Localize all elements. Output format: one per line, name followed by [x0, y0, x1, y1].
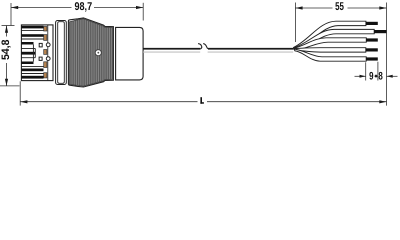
cable (single jacket line) segment 2: [208, 48, 293, 50]
wire 5 (bottom) insulation: [294, 49, 366, 61]
connector front terminal bar 2: [21, 34, 43, 37]
test port circle upper: [46, 43, 50, 47]
svg-text:98,7: 98,7: [75, 1, 93, 13]
dimension 8 outside arrow and shaft: [387, 75, 398, 78]
wire 2 insulation: [294, 29, 374, 49]
connector front rib line 3: [21, 48, 35, 50]
dimension 9 extension line left: [365, 62, 367, 80]
latch lever inner column: [58, 22, 65, 84]
clamp spring 5 (orange): [44, 73, 47, 78]
latch window square upper: [39, 43, 42, 47]
connector front terminal bar 7: [21, 76, 43, 79]
shared right extension line (55 / 8 / L): [386, 3, 388, 106]
latch lever outer column: [56, 21, 67, 85]
wire 4 insulation: [294, 48, 366, 52]
dimension L line and arrows: [20, 100, 386, 103]
dimension 54,8 extension line top: [2, 25, 15, 27]
svg-text:54,8: 54,8: [0, 40, 12, 61]
rear housing block: [116, 27, 144, 80]
boot pin circle center: [97, 52, 99, 54]
connector front rib line 1: [21, 30, 43, 32]
connector front terminal bar 6: [21, 69, 43, 72]
wire 3 stripped tip: [366, 38, 378, 41]
dimension 55 extension line left: [294, 3, 296, 43]
dimension 54,8 extension line bottom: [0, 85, 20, 87]
dimension 98,7 extension line left: [10, 3, 12, 26]
clamp spring 2 (orange): [44, 35, 47, 41]
connector front rib line 6: [21, 73, 43, 75]
connector front rib line 4: [21, 57, 35, 59]
dimension L extension line left: [19, 81, 21, 105]
connector front terminal bar 1: [21, 26, 43, 29]
dimension 9/8 middle double arrowhead: [374, 74, 378, 77]
svg-text:55: 55: [335, 1, 344, 13]
cable (single jacket line) segment 1: [143, 48, 201, 50]
connector front rib line 2: [21, 38, 43, 40]
wire 1 stripped tip: [366, 22, 378, 25]
clamp spring 3 (orange): [44, 50, 47, 55]
connector module vertical line b: [34, 49, 36, 58]
connector front rib line 5: [21, 66, 43, 68]
wire 5 stripped tip: [366, 57, 378, 60]
dimension L label: [200, 97, 202, 104]
boot pin circle: [95, 50, 101, 56]
latch window square lower: [39, 57, 42, 60]
clamp column divider: [47, 25, 49, 81]
connector front terminal bar 5: [21, 62, 33, 65]
dimension 54,8 line and arrows: [5, 26, 8, 86]
dimension 98,7 extension line right: [142, 3, 144, 21]
dimension 55 line and arrows: [295, 6, 386, 9]
strain relief boot outline: [68, 18, 113, 87]
test port circle lower: [46, 57, 50, 61]
wire 3 insulation: [294, 38, 366, 50]
cable jacket faint bottom edge: [143, 51, 293, 53]
connector front terminal bar 4 (center): [21, 52, 35, 55]
clamp spring 1 (orange): [44, 27, 47, 32]
connector front body outline: [21, 25, 53, 81]
connector front terminal bar 3: [21, 42, 33, 45]
wire 2 stripped tip: [374, 30, 386, 33]
dimension 9 outside arrow and shaft: [355, 75, 366, 78]
cable break curl left: [198, 44, 202, 49]
connector module vertical line a: [32, 45, 34, 62]
dimension 98,7 line and arrows: [11, 6, 143, 9]
wire 4 stripped tip: [366, 48, 378, 51]
wire 1 (top) insulation: [294, 21, 366, 49]
dimension 9/8 middle extension line: [377, 62, 379, 81]
svg-text:8: 8: [378, 71, 382, 83]
clamp spring 4 (orange): [44, 62, 47, 68]
strain relief boot hatch: [69, 19, 113, 86]
cable break curl right: [203, 44, 208, 49]
svg-text:9: 9: [369, 71, 373, 83]
